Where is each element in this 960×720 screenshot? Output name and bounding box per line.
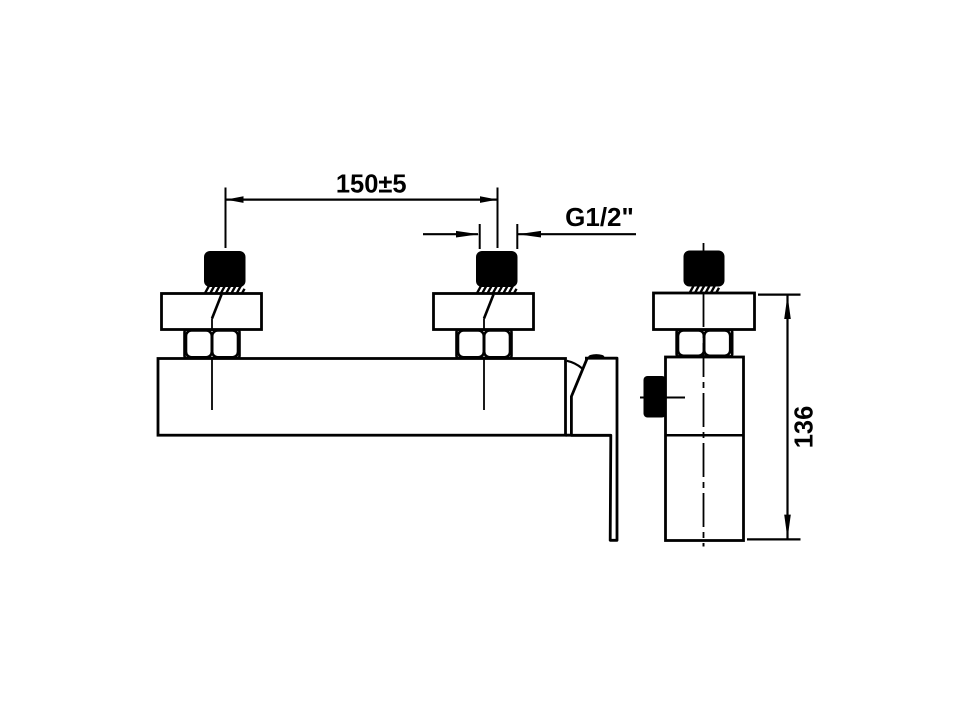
svg-text:G1/2": G1/2" bbox=[565, 202, 634, 232]
svg-text:150±5: 150±5 bbox=[336, 171, 407, 199]
svg-text:136: 136 bbox=[791, 406, 819, 449]
